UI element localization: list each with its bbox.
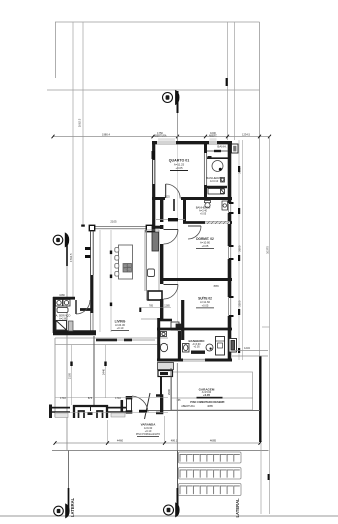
garage west wall bbox=[160, 377, 162, 414]
right dim vertical x=269 bbox=[269, 137, 271, 515]
hall threshold bbox=[156, 219, 185, 221]
svg-text:10375: 10375 bbox=[266, 246, 270, 254]
west wall living: lower window bbox=[91, 313, 93, 331]
dormit02 label bbox=[196, 237, 214, 248]
svg-text:LATERAL: LATERAL bbox=[70, 497, 75, 517]
suite bath vanity bbox=[183, 344, 190, 353]
east AC/window box bbox=[229, 339, 237, 353]
svg-text:2105: 2105 bbox=[68, 372, 72, 379]
suite bath shower bbox=[216, 337, 225, 356]
hall walls near bath2 bbox=[162, 199, 174, 222]
porch SW corner cap bbox=[49, 405, 52, 419]
left porch edge vertical x=55 bbox=[54, 338, 56, 417]
bath2 door arc bbox=[188, 226, 201, 239]
section marker circle C bottom bbox=[54, 504, 70, 518]
wing south window bbox=[183, 358, 205, 361]
dim tick top right bbox=[226, 78, 228, 86]
porch dim texts bbox=[68, 368, 106, 379]
svg-text:3600: 3600 bbox=[238, 245, 242, 252]
sliding door track bbox=[96, 339, 155, 342]
island stools bbox=[115, 248, 119, 277]
window north 2 bbox=[209, 141, 217, 144]
dim ticks on front line bbox=[54, 441, 262, 445]
dim texts above north wall bbox=[102, 131, 250, 138]
bath1 vanity bbox=[208, 189, 225, 195]
bath1 shelf line bbox=[207, 150, 228, 152]
lavabo sink bbox=[171, 322, 181, 330]
kitchen dim line y307 bbox=[140, 304, 171, 307]
svg-text:1662.5: 1662.5 bbox=[78, 118, 82, 127]
AC box NE corner bbox=[232, 144, 239, 153]
wc toilet bbox=[160, 343, 167, 351]
dimension line y=136.5 bbox=[53, 136, 270, 138]
porch dim verticals bbox=[72, 345, 106, 405]
section line C (bottom) bbox=[68, 451, 70, 489]
island cooktop hatch bbox=[123, 264, 132, 273]
varanda label bbox=[136, 423, 160, 437]
svg-text:2440: 2440 bbox=[102, 368, 106, 375]
kitchen sink bbox=[148, 269, 155, 277]
east wall bbox=[228, 141, 232, 361]
service washer boxes bbox=[56, 300, 71, 307]
garage outline bbox=[145, 372, 260, 411]
svg-text:2900: 2900 bbox=[167, 388, 171, 395]
porch floor lines bbox=[55, 338, 168, 345]
extension lines to front dim bbox=[108, 416, 165, 443]
bath2 south wall bbox=[183, 221, 232, 224]
section line B gray segment above front bbox=[176, 363, 178, 451]
kitchen upper cabinet bbox=[152, 232, 159, 251]
svg-text:+0.05: +0.05 bbox=[200, 212, 207, 215]
svg-text:3000: 3000 bbox=[238, 167, 242, 174]
svg-text:1080: 1080 bbox=[59, 294, 65, 297]
svg-text:ABERTURA: ABERTURA bbox=[154, 135, 167, 138]
svg-text:4685: 4685 bbox=[207, 404, 213, 408]
living label bbox=[111, 320, 129, 331]
svg-text:1234: 1234 bbox=[244, 346, 250, 350]
lavabo west wall bbox=[157, 318, 160, 361]
entry steps center bbox=[74, 406, 107, 418]
window east 2 bbox=[228, 245, 234, 260]
setback line left pair bbox=[73, 22, 83, 297]
column living N mid bbox=[146, 225, 152, 231]
paver row 2 bbox=[179, 468, 242, 480]
bath2 toilet bbox=[205, 201, 211, 208]
svg-text:+0.05: +0.05 bbox=[202, 244, 209, 248]
quarto01 door leaf + arc bbox=[166, 184, 181, 199]
bath1 wall y187 bbox=[204, 186, 227, 188]
svg-text:+0.05: +0.05 bbox=[193, 345, 200, 348]
north window sills bbox=[158, 138, 217, 141]
fence wall right dark x=260 bbox=[259, 356, 261, 442]
service tub bbox=[56, 321, 67, 331]
svg-text:PISO CIMENTADO DESEMP.: PISO CIMENTADO DESEMP. bbox=[190, 400, 225, 404]
window east 3 bbox=[228, 296, 234, 317]
bath1 label bbox=[206, 145, 227, 184]
section line B through house (faint) bbox=[177, 144, 179, 360]
right lower light verticals bbox=[261, 327, 270, 514]
svg-text:+0.10: +0.10 bbox=[117, 326, 124, 330]
porch gate door leaf + arc bbox=[132, 393, 150, 419]
svg-text:3300: 3300 bbox=[238, 300, 242, 307]
living north wall thin bbox=[94, 226, 146, 229]
kitchen counter front edge bbox=[145, 230, 147, 291]
entry sill west bbox=[50, 408, 70, 418]
porch dim ticks bbox=[70, 362, 106, 367]
west wall upper block bbox=[152, 141, 155, 232]
porch floor lines bottom bbox=[55, 398, 168, 413]
bath2 west wall bbox=[183, 199, 186, 222]
lavabo north wall bbox=[158, 319, 172, 322]
wing south wall bbox=[157, 359, 232, 362]
svg-text:1234.5: 1234.5 bbox=[242, 132, 250, 136]
svg-text:1762.5: 1762.5 bbox=[69, 253, 73, 262]
svg-text:ABERTURA: ABERTURA bbox=[181, 405, 195, 408]
svg-text:1710: 1710 bbox=[115, 396, 121, 400]
svg-text:+0.05: +0.05 bbox=[203, 393, 211, 397]
dim texts porch bottom bbox=[60, 396, 181, 402]
window east 1 bbox=[228, 202, 234, 214]
suite02 label bbox=[196, 296, 214, 308]
right dim chain bbox=[239, 140, 242, 360]
lavabo east wall bbox=[181, 300, 184, 340]
service door arc bbox=[76, 300, 90, 314]
garage dim vertical bbox=[167, 368, 171, 410]
garage inner line bbox=[172, 397, 254, 399]
front dimension line y=443 bbox=[55, 442, 260, 444]
lot boundary top bbox=[55, 22, 260, 356]
svg-text:+0.05: +0.05 bbox=[175, 166, 183, 170]
porch column SE bbox=[126, 396, 133, 414]
porch interior column line bbox=[93, 336, 95, 405]
front lot boundary y=450.5 bbox=[52, 450, 269, 452]
svg-text:4685: 4685 bbox=[210, 438, 217, 442]
suite bath label bbox=[188, 339, 205, 349]
svg-text:785: 785 bbox=[149, 304, 154, 307]
section marker circle B top bbox=[163, 91, 180, 105]
bath2 vanity east bbox=[222, 201, 228, 210]
column living NW bbox=[89, 225, 94, 230]
svg-text:BANH.: BANH. bbox=[217, 145, 226, 149]
svg-text:1710: 1710 bbox=[60, 396, 66, 400]
right dim line y350 bbox=[232, 346, 268, 356]
small tick right x269 bbox=[268, 474, 270, 480]
dormit02 door arc bbox=[164, 230, 179, 245]
svg-text:+0.05: +0.05 bbox=[202, 303, 209, 307]
porch SE sill end wall bbox=[121, 400, 124, 413]
dim texts garage bottom bbox=[181, 404, 213, 408]
section line C (middle) bbox=[66, 238, 68, 450]
bath2 label bbox=[196, 206, 211, 216]
section line B (bottom) bbox=[177, 451, 179, 489]
kitchen counter outline bbox=[147, 230, 160, 300]
bath1 shower circle bbox=[212, 161, 223, 172]
svg-text:A=3.10: A=3.10 bbox=[210, 179, 219, 183]
kitchen counter bottom box bbox=[148, 291, 162, 300]
service label bbox=[56, 314, 71, 321]
svg-text:1285: 1285 bbox=[164, 304, 170, 307]
svg-text:1225: 1225 bbox=[164, 196, 170, 199]
svg-text:2105: 2105 bbox=[110, 220, 117, 224]
living south wall bbox=[53, 332, 96, 335]
section marker circle B bottom bbox=[164, 503, 180, 517]
garage doorstep boxes bbox=[158, 363, 174, 377]
porch east doorway frame bbox=[156, 396, 162, 414]
svg-text:LATERAL: LATERAL bbox=[235, 498, 240, 518]
garage label bbox=[190, 387, 225, 403]
bath2 hatched sill bbox=[205, 221, 230, 224]
suite02 south wall / bath strip north bbox=[157, 328, 232, 331]
svg-text:LIVING: LIVING bbox=[115, 320, 126, 324]
svg-text:486.1: 486.1 bbox=[171, 438, 178, 442]
svg-text:ABERT.: ABERT. bbox=[209, 135, 218, 138]
bottom margin line y=516 bbox=[0, 515, 338, 517]
svg-text:A=2.80: A=2.80 bbox=[59, 317, 67, 320]
living dim verticals bbox=[100, 230, 111, 332]
west wall living: solid part bbox=[90, 275, 93, 313]
svg-text:3565: 3565 bbox=[213, 285, 219, 288]
svg-text:1980.4: 1980.4 bbox=[102, 132, 110, 136]
dim texts front line bbox=[117, 438, 217, 442]
wc room west bbox=[159, 329, 180, 361]
svg-text:VARANDA: VARANDA bbox=[141, 423, 157, 427]
horizontal guide y=90 bbox=[47, 89, 260, 91]
wing west wall bbox=[160, 225, 163, 320]
dim ticks on top dim line bbox=[52, 135, 272, 139]
suite bath toilet circle bbox=[206, 344, 213, 351]
entry sill east bbox=[108, 408, 126, 417]
section line B (top) bbox=[177, 91, 179, 141]
svg-text:DORMIT. 02: DORMIT. 02 bbox=[196, 237, 214, 241]
dormit02/suite02 divider wall bbox=[163, 278, 232, 281]
north wall bbox=[152, 141, 232, 144]
quarto01 label bbox=[169, 159, 190, 171]
west wall living: window section bbox=[85, 231, 93, 275]
kitchen north wall piece bbox=[152, 226, 163, 229]
service room walls bbox=[53, 297, 96, 333]
paver row 1 bbox=[179, 452, 242, 463]
svg-text:4460: 4460 bbox=[117, 438, 124, 442]
paver row 3 bbox=[179, 484, 242, 496]
service side fixture bbox=[69, 321, 74, 331]
suite02 door arc bbox=[164, 285, 179, 300]
living dim ticks bbox=[110, 251, 142, 313]
bath1 wall y158 bbox=[207, 157, 228, 159]
svg-text:875: 875 bbox=[88, 396, 93, 400]
suite bath tub bbox=[191, 351, 205, 354]
hall floor line bbox=[141, 318, 160, 320]
service tank bbox=[57, 308, 68, 313]
setback line right pair bbox=[228, 22, 235, 140]
upper block south wall bbox=[152, 197, 232, 200]
west wall window core bbox=[153, 160, 155, 184]
interior wall bed1/bath1 bbox=[204, 143, 207, 153]
section marker circle C middle bbox=[53, 233, 69, 247]
window north 1 bbox=[157, 141, 176, 144]
wc corner sink bbox=[161, 332, 167, 337]
kitchen island bbox=[119, 245, 133, 279]
svg-text:SUÍTE 02: SUÍTE 02 bbox=[198, 296, 212, 301]
svg-text:PISO PORCELANATO: PISO PORCELANATO bbox=[136, 433, 160, 436]
west wall window mark (quarto01) bbox=[152, 151, 156, 159]
bath1 toilet bbox=[221, 178, 225, 183]
